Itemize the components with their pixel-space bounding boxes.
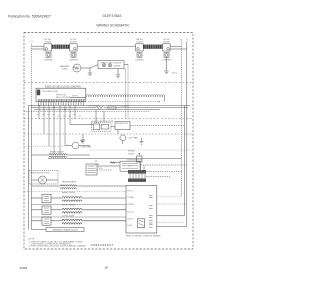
svg-text:1200W: 1200W xyxy=(136,41,143,43)
svg-text:1200W: 1200W xyxy=(163,41,170,43)
svg-text:WARMER DRAWER 450W: WARMER DRAWER 450W xyxy=(52,229,77,232)
svg-text:P24 LINE DOOR: P24 LINE DOOR xyxy=(42,91,58,93)
svg-text:WIRING SCHEMATIC: WIRING SCHEMATIC xyxy=(96,24,130,28)
svg-text:P3 BA: P3 BA xyxy=(128,196,135,199)
svg-text:18: 18 xyxy=(105,265,109,269)
svg-text:2X40W: 2X40W xyxy=(114,65,121,67)
svg-text:ESEC 30 RELAY CONTROL BOARD: ESEC 30 RELAY CONTROL BOARD xyxy=(126,234,161,237)
svg-text:2500W: 2500W xyxy=(70,41,77,43)
svg-text:42/08: 42/08 xyxy=(20,266,28,270)
svg-text:OVEN DOOR LOCK: OVEN DOOR LOCK xyxy=(31,173,51,175)
svg-text:P4 BR: P4 BR xyxy=(128,204,135,206)
svg-text:INTERLOCK: INTERLOCK xyxy=(116,123,129,125)
svg-text:NOTE: NOTE xyxy=(29,238,35,240)
svg-text:SEN: SEN xyxy=(95,164,100,166)
svg-text:BROIL 3400W: BROIL 3400W xyxy=(62,204,75,206)
svg-text:GLEF378AS: GLEF378AS xyxy=(102,14,122,18)
svg-text:5995A39927: 5995A39927 xyxy=(91,243,113,247)
svg-text:LIMITER: LIMITER xyxy=(44,59,53,61)
svg-text:REL COM SEN: REL COM SEN xyxy=(56,97,71,99)
svg-text:P5 CV: P5 CV xyxy=(128,212,135,214)
svg-text:ZONE: ZONE xyxy=(62,68,68,70)
svg-text:Publication No. 5995A39827: Publication No. 5995A39827 xyxy=(8,15,51,19)
svg-text:COOL FAN: COOL FAN xyxy=(128,137,139,140)
svg-text:COM 2: COM 2 xyxy=(128,153,135,155)
svg-text:TOD: TOD xyxy=(98,168,103,170)
svg-text:K1 K2: K1 K2 xyxy=(128,218,135,220)
svg-text:DOOR SW: DOOR SW xyxy=(88,105,98,107)
svg-text:LIMITER: LIMITER xyxy=(69,59,78,61)
svg-text:2100W: 2100W xyxy=(45,41,52,43)
svg-text:CONV 350W: CONV 350W xyxy=(62,215,74,217)
svg-text:OVEN LIGHT CIRCUIT: OVEN LIGHT CIRCUIT xyxy=(100,62,122,64)
svg-text:2. FUNCTIONS INDIC. AT 60 HZ.: 2. FUNCTIONS INDIC. AT 60 HZ. SUPPLY ARE… xyxy=(29,245,87,248)
svg-text:P6 N: P6 N xyxy=(128,225,133,227)
svg-text:P12-1: P12-1 xyxy=(172,73,178,75)
svg-text:CONV FAN: CONV FAN xyxy=(81,145,92,148)
svg-text:P11 LATCH: P11 LATCH xyxy=(118,104,129,107)
svg-text:P2 L1: P2 L1 xyxy=(128,190,134,192)
svg-text:P2 P3: P2 P3 xyxy=(72,96,79,98)
svg-text:BROIL 3400W: BROIL 3400W xyxy=(50,151,63,153)
svg-text:P8 REL: P8 REL xyxy=(128,151,136,153)
svg-text:HIDDEN BAKE: HIDDEN BAKE xyxy=(62,180,77,183)
svg-text:LIMITER: LIMITER xyxy=(135,59,144,61)
